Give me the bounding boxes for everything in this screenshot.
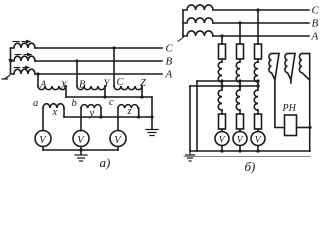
svg-text:V: V [39,135,47,146]
wire: phase line B right [213,22,309,24]
wire: branch 2 between windings [239,82,241,90]
node secondary bus to ground riser [150,115,153,118]
fuse F1 [219,44,226,59]
node V5 on bottom bus [238,149,241,152]
wire: phase line A right [213,35,309,37]
reactor coil phase B [183,18,213,23]
wire: left vertical feeder bus [182,10,184,37]
wire: V3 bottom lead [117,147,119,151]
svg-text:V: V [255,136,262,146]
wire: branch 1 between windings [221,82,223,90]
svg-text:В: В [166,56,173,68]
wire: z terminal to secondary bus [138,108,140,117]
wire: x terminal to secondary bus [63,108,65,117]
node PH on riser [308,126,311,129]
wire: A tap down [37,74,39,86]
svg-text:А: А [311,31,319,43]
svg-text:С: С [166,43,174,55]
svg-text:a: a [33,98,38,109]
wire: left riser inner [196,81,198,151]
VT3 secondary winding [254,90,258,110]
svg-text:В: В [312,18,319,30]
VT3 primary winding [254,62,258,82]
VT1 primary winding [218,62,222,82]
wire: W1 to PH relay [275,79,285,128]
voltmeter V3 [110,131,126,147]
svg-text:V: V [77,135,85,146]
wire: V2 bottom lead [80,147,82,151]
node branch2 primary bus [238,79,241,82]
arrow above L3 [14,66,31,70]
secondary winding c-z [118,105,138,108]
voltmeter V5 [233,132,247,146]
wire: F1 to primary winding [221,59,223,62]
svg-text:B: B [79,80,86,91]
arrowhead down on feeder [10,58,12,61]
node tap branch 1 on A [220,34,223,37]
wire: phase line C [35,47,162,49]
wire: c lead to voltmeter V3 [117,108,119,131]
wire: winding to resistor 1 [221,110,223,114]
fuse F2 [237,44,244,59]
wire: voltmeter common bus [43,149,118,151]
secondary winding b-y [81,105,101,108]
svg-text:V: V [114,135,122,146]
svg-text:С: С [312,5,320,17]
wire: winding to resistor 3 [257,110,259,114]
node z on secondary bus [137,115,140,118]
resistor R3 [255,114,262,129]
svg-text:V: V [219,136,226,146]
wire: F3 to primary winding [257,59,259,62]
wire: winding to resistor 2 [239,110,241,114]
wire: y terminal to secondary bus [100,108,102,117]
node V4 on bottom bus [220,149,223,152]
svg-text:C: C [117,77,125,88]
wire: branch 2 drop [239,23,241,44]
voltmeter V6 [251,132,265,146]
wire: primary star bus [197,80,258,82]
node y on secondary bus [99,115,102,118]
wire: V4 bottom [221,146,223,152]
ground (bottom of left diagram) [75,155,87,161]
node tap branch 2 on B [238,21,241,24]
arrow above L2 [15,53,33,57]
wire: Y terminal down [104,86,106,97]
wire: F2 to primary winding [239,59,241,62]
node branch1 primary bus [220,79,223,82]
primary winding B-Y [77,86,105,90]
reactor coil phase C [183,5,213,10]
svg-text:b: b [72,98,77,109]
wire: R2 to voltmeter [239,129,241,132]
fuse F3 [255,44,262,59]
auxiliary transformer winding W1 [269,54,279,80]
wire: branch 3 between windings [257,82,259,90]
svg-text:A: A [39,80,47,91]
svg-text:V: V [237,136,244,146]
wire: bottom bus [190,150,310,152]
svg-text:РН: РН [282,103,297,114]
resistor R1 [219,114,226,129]
VT1 secondary winding [218,90,222,110]
wire: C tap down [113,48,115,86]
svg-text:Z: Z [140,78,146,89]
auxiliary transformer winding W3 [299,54,309,81]
svg-text:а): а) [100,155,111,170]
ground (right diagram) [186,151,195,161]
wire: left vertical feeder bus [10,48,12,74]
wire: R3 to voltmeter [257,129,259,132]
voltmeter V1 [35,131,51,147]
wire: PH right terminal [297,127,311,129]
wire: secondary bus [64,116,152,118]
node Z on primary star bus [140,95,143,98]
arrow tail off lower-left [178,39,182,42]
voltmeter V4 [215,132,229,146]
scan artifact line [184,156,310,158]
wire: branch 1 drop [221,36,223,44]
node: tap A to winding 1 [36,72,39,75]
arrow tail off-image lower-left [5,76,10,79]
primary winding C-Z [114,86,142,90]
wire: left riser outer [189,86,191,151]
node: ground tap on common bus [79,148,82,151]
wire: branch 3 drop [257,10,259,44]
ground (right of left diagram) [146,130,158,136]
node: tap C to winding 3 [112,46,115,49]
wire: X terminal down [65,86,67,97]
node: tap B to winding 2 [75,59,78,62]
svg-text:x: x [52,107,58,118]
arrow above L1 [13,40,32,44]
VT2 primary winding [236,62,240,82]
VT2 secondary winding [236,90,240,110]
wire: phase line B [35,60,162,62]
voltmeter V2 [73,131,89,147]
reactor coil L2 phase B [11,56,36,61]
node branch3 primary bus [256,79,259,82]
wire: a lead to voltmeter V1 [42,108,44,131]
node branch1 secondary bus [220,84,223,87]
wire: ground stub [80,150,82,155]
reactor coil L1 phase C [11,43,36,48]
wire: V1 bottom lead [42,147,44,151]
wire: secondary star bus [190,85,258,87]
node V6 on bottom bus [256,149,259,152]
svg-text:c: c [109,97,114,108]
relay PH box [285,115,297,136]
wire: Z terminal down [141,86,143,97]
node tap branch 3 on C [256,8,259,11]
wire: V6 bottom [257,146,259,152]
wire: phase line C right [213,9,309,11]
wire: b lead to voltmeter V2 [80,108,82,131]
primary winding A-X [38,86,66,90]
node Y on primary star bus [103,95,106,98]
wire: R1 to voltmeter [221,129,223,132]
secondary winding a-x [43,104,64,108]
wire: W3 right leg riser [309,54,311,152]
wire: primary star bus [66,96,152,98]
auxiliary transformer winding W2 [285,54,295,84]
node branch2 secondary bus [238,84,241,87]
resistor R2 [237,114,244,129]
wire: V5 bottom [239,146,241,152]
svg-text:А: А [165,69,173,81]
wire: phase line A [35,73,162,75]
wire: right ground riser [151,97,153,129]
wire: B tap down [76,61,78,86]
svg-text:б): б) [245,159,256,174]
svg-text:z: z [127,106,132,117]
reactor coil L3 phase A [11,69,36,74]
reactor coil phase A [183,31,213,36]
node branch3 secondary bus [256,84,259,87]
